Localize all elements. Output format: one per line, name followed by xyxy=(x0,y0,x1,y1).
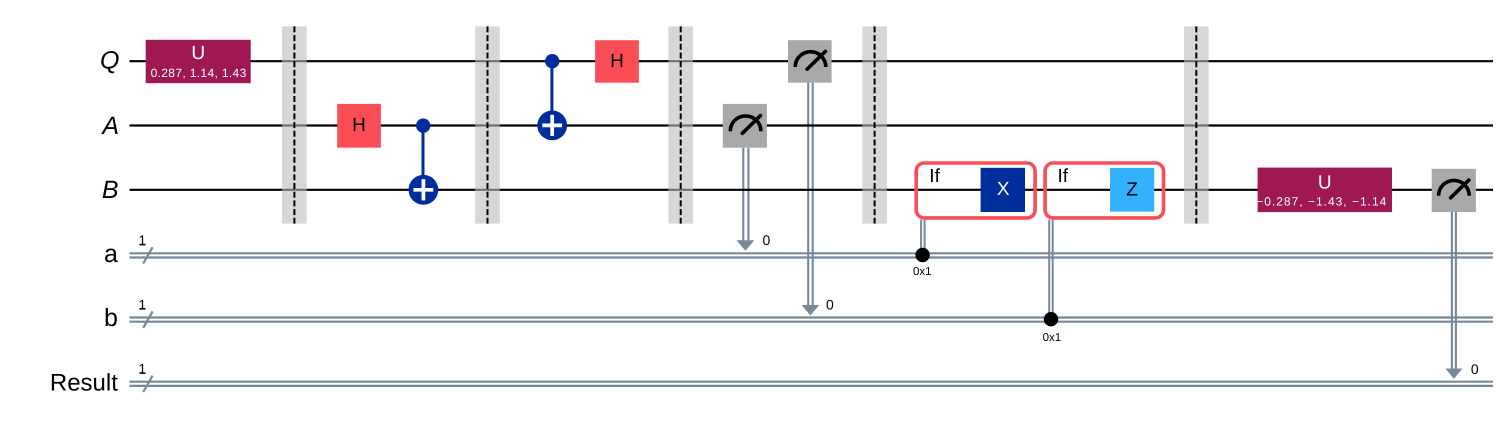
svg-text:U: U xyxy=(1318,173,1332,194)
condition dot if1 on a xyxy=(915,248,929,262)
cnot CX2 control dot on Q xyxy=(545,54,559,68)
svg-text:A: A xyxy=(100,112,119,140)
gate X in if box 1 xyxy=(981,168,1025,212)
svg-text:X: X xyxy=(997,179,1010,200)
svg-text:1: 1 xyxy=(138,232,146,248)
svg-text:b: b xyxy=(104,304,118,332)
svg-text:0x1: 0x1 xyxy=(913,266,932,278)
measure arrowhead result xyxy=(1445,369,1462,379)
svg-text:1: 1 xyxy=(138,361,146,377)
measure arrowhead b xyxy=(802,305,820,316)
svg-text:0.287, 1.14, 1.43: 0.287, 1.14, 1.43 xyxy=(151,66,247,80)
svg-text:H: H xyxy=(610,51,624,72)
measure M1 on A xyxy=(723,104,767,148)
svg-text:a: a xyxy=(104,240,118,268)
cnot CX1 A to B wire xyxy=(422,126,425,190)
qubit label Q xyxy=(100,47,119,75)
svg-text:If: If xyxy=(1058,166,1069,187)
if box 1 label If xyxy=(929,166,940,187)
cnot CX1 control dot on A xyxy=(416,119,430,133)
svg-text:B: B xyxy=(102,176,119,204)
measure arrow line q->b xyxy=(808,83,813,306)
gate Z in if box 2 xyxy=(1110,168,1154,212)
svg-text:Z: Z xyxy=(1126,179,1138,200)
barrier 5 xyxy=(1184,26,1209,223)
qubit label A xyxy=(100,112,119,140)
svg-text:0x1: 0x1 xyxy=(1043,332,1062,344)
if box 2 label If xyxy=(1058,166,1069,187)
measure M3 on B xyxy=(1432,169,1476,212)
cnot CX2 Q to A wire xyxy=(550,61,553,125)
measure M2 result bit label 0 xyxy=(826,296,834,312)
measure M2 on Q xyxy=(788,40,832,82)
svg-text:Result: Result xyxy=(50,369,118,396)
gate U1 on Q xyxy=(146,40,251,83)
classical wire Result xyxy=(130,382,1494,386)
condition dot if2 on b xyxy=(1044,312,1058,326)
qubit wire Q xyxy=(130,60,1494,62)
condition label 0x1 if2 xyxy=(1043,332,1062,344)
if box 2 outline xyxy=(1045,163,1163,218)
clbit label b xyxy=(104,304,118,332)
gate H2 on Q xyxy=(595,40,639,82)
measure arrowhead a xyxy=(737,240,755,251)
svg-text:0: 0 xyxy=(826,296,834,312)
measure arrow line a xyxy=(743,148,748,241)
wire-count 1 slash Result xyxy=(138,361,152,392)
gate U2 on B xyxy=(1256,168,1392,213)
barrier 2 xyxy=(475,26,500,223)
cnot CX2 target on A xyxy=(537,111,567,141)
barrier 4 xyxy=(862,26,887,223)
svg-text:Q: Q xyxy=(100,47,119,75)
if box 1 outline xyxy=(916,163,1035,218)
condition label 0x1 if1 xyxy=(913,266,932,278)
clbit label a xyxy=(104,240,118,268)
cnot CX1 target on B xyxy=(409,175,439,205)
clbit label Result xyxy=(50,369,118,396)
measure arrow line result xyxy=(1452,212,1456,369)
measure M1 result bit label 0 xyxy=(763,232,771,248)
qubit wire A xyxy=(130,124,1494,126)
svg-text:If: If xyxy=(929,166,940,187)
measure M3 result bit label 0 xyxy=(1471,361,1479,377)
classical wire b xyxy=(130,318,1494,322)
qubit label B xyxy=(102,176,119,204)
barrier 1 xyxy=(282,26,307,223)
condition wire if1 xyxy=(921,220,925,256)
svg-text:H: H xyxy=(352,115,366,136)
condition wire if2 xyxy=(1049,220,1053,320)
wire-count 1 slash b xyxy=(138,296,152,327)
classical wire a xyxy=(130,253,1494,257)
svg-text:0: 0 xyxy=(763,232,771,248)
svg-text:U: U xyxy=(191,43,205,64)
wire-count 1 slash a xyxy=(138,232,152,263)
gate H1 on A xyxy=(337,104,381,148)
svg-text:0: 0 xyxy=(1471,361,1479,377)
barrier 3 xyxy=(668,26,693,223)
svg-text:−0.287, −1.43, −1.14: −0.287, −1.43, −1.14 xyxy=(1256,195,1387,209)
qubit wire B xyxy=(130,189,1494,191)
svg-text:1: 1 xyxy=(138,296,146,312)
